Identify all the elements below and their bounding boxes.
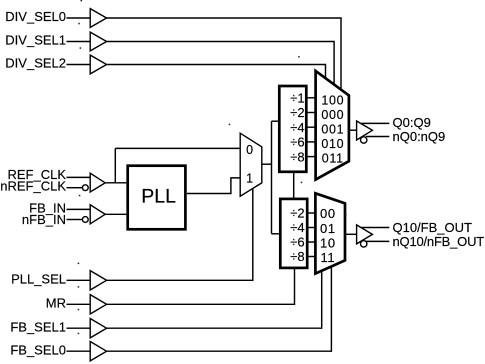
svg-text:011: 011 [322, 151, 344, 165]
svg-text:001: 001 [321, 122, 344, 136]
artifact dot near DIV_SEL0 [78, 23, 80, 25]
wire DIV_SEL0 net to mux1 top [107, 18, 341, 92]
mux1 output select [316, 71, 349, 180]
wire clock to divider1 [272, 120, 281, 122]
wire clock to divider2 [272, 233, 282, 235]
wire divider2 row4 stub [305, 256, 317, 258]
wire divider1 row3 stub [305, 126, 317, 128]
artifact dot below nREF_CLK [79, 195, 81, 197]
wire MR label to buffer [67, 303, 91, 305]
svg-text:nQ0:nQ9: nQ0:nQ9 [393, 129, 446, 144]
svg-text:PLL: PLL [141, 186, 176, 208]
buffer FB_SEL0 [90, 342, 106, 361]
svg-text:÷4: ÷4 [290, 220, 304, 235]
wire FB_IN label to buffer [67, 208, 91, 210]
wire Q0:Q9 output [362, 122, 390, 124]
svg-text:÷4: ÷4 [290, 120, 304, 135]
svg-text:11: 11 [320, 250, 335, 265]
wire small mux output [262, 163, 272, 165]
buffer MR [90, 295, 106, 314]
wire divider1 row5 stub [305, 156, 317, 158]
wire DIV_SEL1 label to buffer [67, 41, 91, 43]
svg-text:DIV_SEL0: DIV_SEL0 [5, 9, 66, 24]
buffer DIV_SEL1 [90, 32, 106, 51]
svg-text:MR: MR [46, 295, 66, 310]
wire PLL output to small mux input 1 [187, 178, 240, 194]
bubble output buffer 1 [361, 137, 367, 143]
output buffer Q10 [357, 225, 373, 244]
wire mux1 output [349, 129, 357, 131]
svg-text:010: 010 [321, 137, 344, 151]
buffer DIV_SEL0 [90, 9, 106, 28]
svg-text:nREF_CLK: nREF_CLK [0, 178, 66, 193]
wire FB_SEL0 label to buffer [67, 350, 91, 352]
wire nQ0:nQ9 output [366, 136, 390, 138]
wire PLL_SEL label to buffer [67, 279, 91, 281]
wire divider1 row1 stub [305, 97, 317, 99]
svg-text:Q10/FB_OUT: Q10/FB_OUT [393, 220, 473, 235]
artifact dot near DIV_SEL1 [80, 47, 82, 49]
wire nQ10/nFB_OUT output [366, 240, 390, 242]
artifact dot top edge [81, 0, 83, 1]
svg-text:÷8: ÷8 [290, 149, 304, 164]
divider block 1 [279, 86, 306, 172]
small mux PLL bypass [240, 133, 262, 196]
svg-text:÷6: ÷6 [290, 135, 304, 150]
wire FB_SEL1 label to buffer [67, 327, 91, 329]
artifact dot above PLL_SEL [78, 263, 80, 265]
wire DIV_SEL2 net to mux1 top [107, 65, 326, 81]
svg-text:nFB_IN: nFB_IN [22, 212, 66, 227]
artifact dot left of clock mux [229, 124, 231, 126]
artifact dot above MR [78, 286, 80, 288]
wire nREF_CLK label to bubble [67, 187, 83, 189]
buffer DIV_SEL2 [90, 55, 106, 74]
artifact dot above FB_SEL0 [78, 333, 80, 335]
wire divider2 row3 stub [305, 241, 317, 243]
svg-text:÷8: ÷8 [290, 249, 304, 264]
artifact dot right of mux2 [345, 215, 347, 217]
wire REF_CLK label to buffer [67, 176, 91, 178]
svg-text:÷2: ÷2 [290, 206, 304, 221]
svg-text:FB_SEL1: FB_SEL1 [10, 319, 66, 334]
svg-text:00: 00 [320, 206, 336, 221]
wire divider1 to divider2 vertical [293, 172, 295, 199]
svg-text:0: 0 [246, 143, 253, 157]
wire FB_SEL0 net to mux2 bottom [107, 266, 332, 352]
wire mux2 output [345, 233, 357, 235]
wire divider1 row2 stub [305, 112, 317, 114]
svg-text:1: 1 [246, 172, 253, 186]
buffer FB_SEL1 [90, 319, 106, 338]
bubble nFB_IN [82, 217, 88, 223]
svg-text:DIV_SEL2: DIV_SEL2 [5, 56, 66, 71]
svg-text:FB_SEL0: FB_SEL0 [10, 342, 66, 357]
artifact dot above FB_SEL1 [78, 309, 80, 311]
svg-text:÷2: ÷2 [290, 105, 304, 120]
wire Q10/FB_OUT output [362, 227, 390, 229]
wire clock distribution vertical [271, 121, 273, 234]
svg-text:÷1: ÷1 [290, 91, 304, 106]
svg-text:000: 000 [321, 108, 344, 122]
PLL block [128, 166, 186, 230]
wire REF buffer output to PLL [105, 182, 126, 184]
artifact dot below divider1 [301, 182, 303, 184]
wire divider2 row2 stub [305, 227, 317, 229]
svg-text:nQ10/nFB_OUT: nQ10/nFB_OUT [393, 234, 485, 249]
wire MR net to divider2 bottom [107, 269, 295, 305]
svg-text:÷6: ÷6 [290, 235, 304, 250]
wire bypass vertical at x=115 [114, 148, 116, 182]
output buffer Q0:Q9 [357, 121, 373, 140]
buffer PLL_SEL [90, 271, 106, 290]
wire FB_SEL1 net to mux2 bottom [107, 270, 322, 328]
wire FB buffer output to PLL [105, 213, 126, 215]
buffer REF_CLK differential input [90, 173, 105, 192]
wire divider2 row1 stub [305, 212, 317, 214]
divider block 2 [280, 199, 307, 268]
artifact dot above divider1 [298, 56, 300, 58]
bubble output buffer 2 [361, 241, 367, 247]
buffer FB_IN differential input [90, 205, 105, 224]
wire divider1 row4 stub [305, 141, 317, 143]
svg-text:PLL_SEL: PLL_SEL [11, 271, 66, 286]
svg-text:01: 01 [320, 221, 336, 236]
wire DIV_SEL1 net to mux1 top [107, 42, 335, 87]
wire DIV_SEL0 label to buffer [67, 17, 91, 19]
wire bypass to small mux input 0 [115, 147, 240, 149]
svg-text:DIV_SEL1: DIV_SEL1 [5, 33, 66, 48]
mux2 output select [315, 193, 345, 273]
svg-text:10: 10 [320, 235, 336, 250]
wire PLL_SEL net to small mux bottom [107, 188, 253, 281]
svg-text:100: 100 [321, 93, 344, 107]
wire DIV_SEL2 label to buffer [67, 64, 91, 66]
bubble nREF_CLK [82, 185, 88, 191]
wire nFB_IN label to bubble [67, 219, 83, 221]
